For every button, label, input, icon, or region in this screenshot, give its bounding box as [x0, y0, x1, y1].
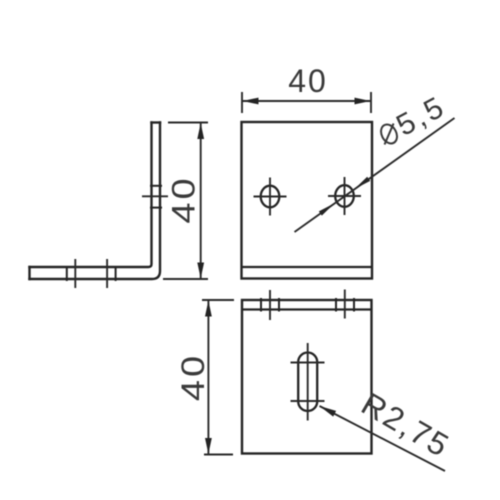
side view L-bracket outline [30, 123, 161, 280]
top view hole left crosshair [254, 178, 287, 216]
svg-text:40: 40 [166, 175, 201, 223]
leader line diameter 5,5 [295, 118, 455, 232]
side view slot end edge left [66, 266, 68, 281]
top view square [242, 122, 373, 279]
leader line R2,75 [320, 406, 446, 471]
side view slot end edge right [115, 266, 117, 281]
side view slot centerline right [106, 259, 108, 288]
front view slot crosshairs [291, 343, 325, 421]
top view bend line [242, 266, 373, 268]
leader arrow R2,75 [320, 406, 337, 417]
dimension 40 front view: extension lines [202, 300, 234, 455]
side view hole edge bottom [150, 207, 162, 209]
dimension 40 top view arrows [243, 98, 259, 105]
side view slot centerline left [74, 259, 76, 288]
dimension 40 front view arrows [205, 301, 212, 317]
front view hole right centerline [344, 290, 346, 319]
dimension 40 top view: extension lines [242, 92, 371, 113]
front view square [242, 300, 372, 454]
front view hole left centerline [269, 290, 271, 320]
label diameter 5,5 [373, 90, 451, 153]
svg-text:40: 40 [176, 353, 211, 401]
dimension 40 side view arrows [197, 123, 204, 139]
dimension 40 side view height: extension lines [163, 123, 208, 280]
side view hole edge top [150, 185, 162, 187]
front view hole left edges [261, 298, 279, 312]
leader arrow lower at hole edge [319, 203, 335, 215]
front view slot outline [298, 353, 317, 412]
top view hole right [335, 185, 354, 207]
top view hole right crosshair [328, 177, 361, 215]
front view top flange line [242, 308, 372, 310]
side view hole centerline [142, 195, 168, 197]
svg-text:40: 40 [288, 63, 328, 99]
top view hole left [261, 186, 280, 208]
leader arrow upper at hole edge [355, 177, 371, 189]
front view hole right edges [336, 298, 354, 312]
